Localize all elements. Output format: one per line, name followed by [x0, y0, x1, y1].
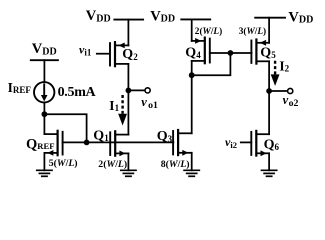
svg-text:8(W/L): 8(W/L)	[161, 159, 190, 170]
svg-text:2(W/L): 2(W/L)	[195, 26, 222, 37]
terminal vo2 (open circle)	[288, 88, 293, 93]
wire current source to node A	[43, 103, 45, 115]
svg-text:5(W/L): 5(W/L)	[49, 158, 78, 169]
wire node B to QREF gate	[63, 141, 87, 143]
transistor Q6 (NMOS input device)	[251, 131, 269, 156]
current source IREF 0.5mA	[34, 82, 54, 102]
power VDD symbol (right, above Q5)	[255, 9, 313, 25]
svg-text:2(W/L): 2(W/L)	[98, 159, 127, 170]
current arrow I2 (dashed)	[271, 61, 280, 86]
ground symbol (Q6)	[262, 170, 277, 176]
terminal vo1 (open circle)	[145, 88, 150, 93]
ground symbol (Q3)	[184, 170, 199, 176]
node vo2 junction	[266, 88, 272, 94]
wire VDD to current source	[43, 60, 45, 82]
node A junction (IREF / QREF drain / gate net)	[42, 111, 48, 117]
wire vi2 to Q6 gate	[241, 141, 252, 143]
wire node vo1 to Q1 drain	[127, 90, 129, 134]
svg-text:3(W/L): 3(W/L)	[239, 26, 266, 37]
wire Q3 source to ground	[191, 153, 193, 171]
wire Q2 drain to node vo1	[127, 64, 129, 91]
node D junction (Q4 drain)	[189, 72, 195, 78]
wire node C down and left to Q4 drain (diode tie)	[192, 53, 231, 75]
wire node vo2 to Q6 drain	[268, 91, 270, 134]
wire Q1 source to ground	[127, 153, 129, 170]
node vo1 junction	[125, 88, 131, 94]
power VDD symbol (above Q4)	[150, 8, 210, 24]
ground symbol (QREF)	[37, 170, 52, 176]
current arrow I1 (dashed)	[118, 95, 127, 126]
wire Q4 gate to node C	[210, 52, 231, 54]
wire node vo2 to output terminal	[269, 90, 287, 92]
wire node A over to gate net junction	[44, 114, 86, 142]
node C junction (Q4/Q5 gate tie)	[228, 50, 234, 56]
wire vi1 to Q2 gate	[97, 53, 109, 55]
transistor QREF (diode-connected NMOS, 5 W/L)	[44, 131, 62, 156]
wire QREF source to ground	[43, 153, 45, 170]
power VDD symbol (above Q2)	[86, 8, 143, 24]
wire node C to Q5 gate	[230, 52, 251, 54]
transistor Q2 (PMOS input device)	[110, 42, 128, 66]
wire VDD to Q5 source	[268, 18, 270, 43]
wire Q5 drain to node vo2	[268, 61, 270, 91]
wire VDD to Q2 source	[127, 20, 129, 46]
wire Q4 drain down to Q3 drain	[191, 61, 193, 133]
wire node vo1 to output terminal	[128, 89, 145, 91]
transistor Q3 (NMOS mirror output, 8 W/L)	[173, 130, 192, 156]
transistor Q4 (PMOS mirror, diode-connected, 2 W/L)	[192, 38, 210, 64]
node B junction (gate net)	[84, 140, 90, 146]
ground symbol (Q1)	[121, 170, 136, 176]
transistor Q1 (NMOS mirror output, 2 W/L)	[110, 131, 128, 156]
power VDD symbol (left, above IREF)	[31, 41, 58, 60]
svg-text:0.5mA: 0.5mA	[58, 85, 97, 100]
wire VDD to Q4 source	[191, 19, 193, 41]
wire Q6 source to ground	[268, 153, 270, 170]
wire gate net node B to Q1 and Q3 gates	[87, 141, 174, 143]
wire node A down to QREF drain	[43, 114, 45, 134]
transistor Q5 (PMOS mirror output, 3 W/L)	[251, 40, 269, 64]
